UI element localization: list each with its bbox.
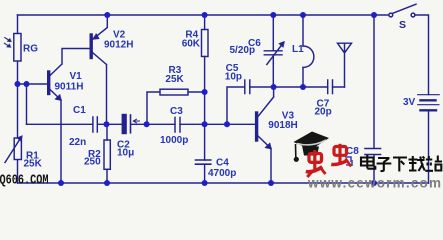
resistor R1 (variable) body — [14, 138, 21, 160]
resistor R2 leads — [106, 124, 108, 183]
wire C1 row horizontal — [27, 123, 148, 125]
svg-text:20p: 20p — [315, 106, 332, 117]
transistor V3 base bar — [255, 113, 258, 140]
logo character zhan — [425, 156, 442, 171]
resistor R4 body — [202, 30, 209, 57]
svg-text:C4: C4 — [216, 158, 229, 169]
wire C4 leads — [204, 124, 206, 183]
microphone RG body — [14, 34, 21, 62]
wire C1 branch vertical — [26, 84, 28, 124]
battery GB short plates — [421, 100, 437, 110]
wire C3 row horizontal — [147, 123, 204, 125]
junction L1 bottom node — [300, 84, 306, 90]
junction V3 emitter on ground rail — [268, 180, 274, 186]
logo graduation cap crown — [302, 146, 319, 156]
transistor V2 emitter arrow — [93, 34, 100, 40]
logo graduation cap highlight — [297, 140, 326, 145]
transistor V2 base bar — [89, 35, 92, 58]
capacitor C2 electrolytic positive plate — [122, 115, 126, 134]
transistor V2 collector — [93, 53, 107, 125]
logo character zai — [409, 156, 425, 171]
logo site name characters — [361, 155, 442, 172]
junction C8 on top rail — [371, 12, 377, 18]
resistor R4 leads — [204, 15, 206, 124]
logo graduation cap board — [294, 132, 330, 150]
logo character dian — [361, 155, 375, 169]
svg-text:10p: 10p — [225, 72, 242, 83]
capacitor C1 — [93, 117, 97, 132]
junction R4 / C4 / C3 node — [202, 121, 208, 127]
svg-text:L1: L1 — [292, 44, 304, 55]
svg-text:RG: RG — [23, 44, 38, 55]
wire top supply rail — [18, 14, 389, 16]
wire R3 left leg — [147, 92, 160, 124]
resistor R2 body — [104, 140, 110, 169]
junction V1 base node — [24, 81, 30, 87]
junction V1 emitter on ground rail — [58, 180, 64, 186]
wire C8 branch vertical — [373, 15, 375, 183]
logo bug character 2 — [331, 144, 351, 167]
svg-text:C3: C3 — [170, 106, 183, 117]
junction R2 on ground rail — [104, 180, 110, 186]
svg-text:4700p: 4700p — [208, 168, 236, 179]
wire battery negative lead — [428, 110, 430, 183]
capacitor C3 — [175, 117, 180, 132]
logo character zi — [377, 158, 392, 171]
capacitor C5 — [245, 80, 250, 94]
transistor V1 collector — [50, 49, 90, 76]
stray blue marks under logo — [345, 157, 352, 166]
svg-text:10μ: 10μ — [117, 148, 134, 159]
transistor V1 emitter arrow — [55, 94, 62, 100]
junction R4 on top rail — [202, 12, 208, 18]
microphone RG sound arrows — [4, 38, 9, 46]
antenna — [338, 43, 352, 87]
transistor V3 emitter arrow — [265, 143, 272, 149]
capacitor C4 — [196, 160, 211, 164]
wire tank row horizontal — [274, 86, 345, 88]
battery GB long plates — [418, 95, 440, 105]
transistor V3 emitter — [258, 136, 271, 183]
wire V1 base horizontal — [18, 83, 49, 85]
switch S lever — [393, 4, 416, 13]
transistor V1 base bar — [47, 72, 50, 94]
junction V3 collector / C5 / C6 node — [271, 84, 277, 90]
junction RG to R1 node — [15, 81, 21, 87]
capacitor C2 electrolytic negative plate — [130, 115, 132, 133]
wire bottom ground rail — [18, 182, 429, 184]
logo graduation cap tassel knob — [294, 157, 299, 162]
svg-text:S: S — [399, 19, 406, 31]
wire switch to battery — [415, 15, 428, 95]
wire left branch vertical — [17, 15, 19, 183]
junction C6 on top rail — [270, 12, 276, 18]
transistor V2 emitter — [93, 15, 108, 40]
svg-text:C1: C1 — [73, 105, 86, 116]
junction L1 on top rail — [300, 12, 306, 18]
resistor R3 body — [160, 89, 188, 95]
wire R3 right leg — [188, 91, 205, 93]
junction V2 emitter on top rail — [104, 12, 110, 18]
svg-text:9012H: 9012H — [104, 40, 133, 51]
svg-text:22n: 22n — [69, 137, 86, 148]
svg-text:5/20p: 5/20p — [230, 45, 256, 56]
svg-text:9011H: 9011H — [55, 82, 84, 93]
logo graduation cap tassel cord — [295, 144, 297, 157]
resistor R1 wiper arrow — [5, 139, 20, 163]
capacitor C6 variable plates and leads — [264, 15, 282, 87]
inductor L1 loop — [303, 46, 314, 68]
junction C4 on ground rail — [202, 180, 208, 186]
logo bug character 1 — [306, 150, 326, 177]
svg-text:9018H: 9018H — [268, 120, 297, 131]
junction V2 collector / R2 / C2 node — [104, 121, 110, 127]
capacitor C6 trimmer arrow — [267, 45, 282, 64]
capacitor C2 polarity arrow — [133, 119, 139, 123]
logo character xia — [393, 158, 407, 172]
wire C5 leads — [227, 87, 274, 124]
capacitor C7 — [328, 80, 333, 94]
svg-text:25K: 25K — [165, 74, 184, 85]
transistor V1 emitter — [50, 90, 61, 184]
switch S left contact — [389, 13, 393, 17]
junction C2 / C3 / R3 node — [144, 121, 150, 127]
wire V3 base row — [205, 123, 256, 125]
capacitor C8 — [365, 149, 381, 155]
svg-text:25K: 25K — [24, 159, 43, 170]
svg-text:250: 250 — [84, 157, 101, 168]
svg-text:3V: 3V — [403, 97, 416, 108]
inductor L1 leads — [302, 15, 304, 87]
svg-text:www.eeworm.com: www.eeworm.com — [307, 176, 441, 189]
junction R3 / R4 node — [202, 89, 208, 95]
transistor V3 collector — [258, 87, 274, 117]
junction C8 on ground rail — [371, 180, 377, 186]
svg-text:60K: 60K — [182, 39, 201, 50]
svg-text:1000p: 1000p — [160, 135, 188, 146]
junction C5 to V3 base node — [224, 121, 230, 127]
switch S right contact — [411, 13, 415, 17]
svg-text:Q606.COM: Q606.COM — [0, 173, 49, 189]
